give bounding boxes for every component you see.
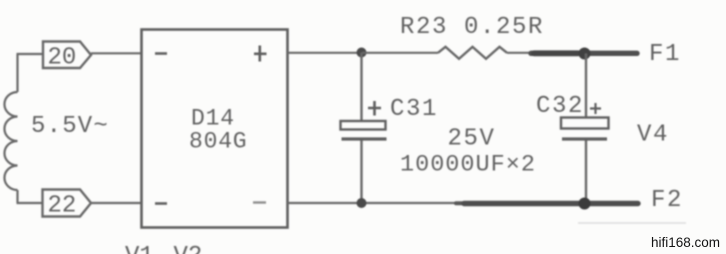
wire: winding top to tag 20 — [17, 53, 44, 55]
C32 plus mark — [590, 103, 601, 114]
capacitor C32 — [561, 54, 609, 204]
wire: winding bottom to tag 22 — [17, 202, 44, 204]
junction node C (bottom of C31) — [357, 198, 367, 208]
junction node A (top of C31) — [357, 48, 367, 58]
junction node D (bottom of C32) — [579, 198, 591, 210]
polarity mark - (bottom-left pin) — [155, 202, 167, 205]
wire: rectifier + output to node A — [288, 52, 363, 54]
svg-text:V2: V2 — [174, 243, 203, 254]
svg-text:22: 22 — [48, 193, 77, 220]
wire: rectifier - output along bottom rail — [288, 202, 466, 204]
junction node B (top of C32) — [579, 48, 591, 60]
svg-text:V1: V1 — [125, 243, 154, 254]
capacitor C31 — [341, 53, 387, 204]
svg-text:20: 20 — [48, 45, 77, 72]
thick bus wire to F2 — [456, 201, 468, 205]
wire: node A to R23 — [362, 52, 438, 54]
wire: tag 20 to rectifier — [91, 52, 141, 54]
svg-text:V4: V4 — [637, 122, 669, 149]
wire: R23 to F1 bus — [507, 52, 536, 54]
node tag 22 — [43, 190, 92, 220]
svg-text:F2: F2 — [651, 187, 683, 214]
svg-text:R23 0.25R: R23 0.25R — [400, 14, 544, 41]
svg-text:10000UF×2: 10000UF×2 — [400, 152, 536, 179]
svg-text:C32: C32 — [536, 93, 584, 120]
scan smudge — [578, 222, 686, 224]
svg-text:F1: F1 — [649, 41, 681, 68]
bridge rectifier D14 804G — [142, 30, 288, 228]
node tag 20 — [43, 42, 91, 72]
svg-text:hifi168.com: hifi168.com — [651, 235, 720, 250]
C31 plus mark — [368, 101, 381, 116]
svg-text:25V: 25V — [448, 126, 496, 153]
transformer winding (5.5V~ secondary) — [4, 54, 17, 203]
thick bus wire to F1 — [531, 51, 637, 56]
polarity mark - (top-left pin) — [155, 52, 167, 55]
resistor R23 0.25R — [400, 14, 544, 59]
polarity mark - (bottom-right pin) — [253, 201, 266, 203]
polarity mark + (top-right pin) — [254, 46, 267, 62]
wire: tag 22 to rectifier — [91, 202, 141, 204]
svg-text:804G: 804G — [189, 129, 247, 155]
svg-text:5.5V~: 5.5V~ — [31, 113, 109, 140]
svg-text:C31: C31 — [390, 96, 438, 123]
